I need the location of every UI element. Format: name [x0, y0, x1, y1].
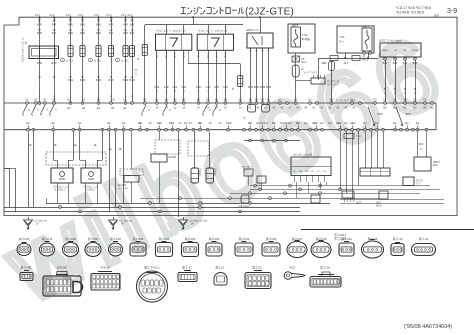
- svg-text:2J 2: 2J 2: [107, 13, 112, 17]
- svg-text:K2: K2: [383, 98, 387, 102]
- svg-text:2J 2: 2J 2: [94, 13, 99, 17]
- svg-text:E2: E2: [363, 121, 367, 125]
- svg-text:水②C06: 水②C06: [19, 237, 30, 241]
- svg-text:⑤J/C: ⑤J/C: [356, 202, 362, 205]
- svg-text:B-R: B-R: [109, 23, 114, 27]
- svg-text:K2: K2: [255, 98, 259, 102]
- svg-text:⑥EFIﾒｲﾝﾘﾚｰ: ⑥EFIﾒｲﾝﾘﾚｰ: [246, 28, 261, 32]
- svg-text:B: B: [156, 55, 158, 59]
- svg-text:E2: E2: [344, 121, 348, 125]
- svg-text:G-R: G-R: [214, 85, 219, 89]
- svg-text:G-R: G-R: [164, 85, 169, 89]
- svg-text:黒②C05: 黒②C05: [266, 237, 277, 241]
- svg-text:B-W: B-W: [248, 85, 254, 89]
- svg-text:2J 2: 2J 2: [50, 13, 55, 17]
- svg-text:B: B: [414, 87, 416, 91]
- svg-text:G-R: G-R: [155, 85, 160, 89]
- svg-text:E2: E2: [226, 121, 230, 125]
- svg-text:K2: K2: [373, 98, 377, 102]
- svg-text:K2: K2: [350, 98, 354, 102]
- svg-text:④ｱｲﾄﾞﾙｽﾋﾟｰﾄﾞｺﾝﾄﾛｰﾙﾊﾞﾙﾌﾞ: ④ｱｲﾄﾞﾙｽﾋﾟｰﾄﾞｺﾝﾄﾛｰﾙﾊﾞﾙﾌﾞ: [157, 29, 187, 33]
- svg-text:B-W: B-W: [260, 85, 266, 89]
- svg-text:G-R: G-R: [173, 85, 178, 89]
- svg-text:B: B: [404, 87, 406, 91]
- svg-text:K2: K2: [111, 98, 115, 102]
- svg-text:IGSW: IGSW: [412, 50, 419, 52]
- svg-text:MREL: MREL: [382, 50, 389, 52]
- svg-text:黒②-4L: 黒②-4L: [419, 237, 429, 241]
- svg-text:7.5A: 7.5A: [356, 135, 361, 138]
- svg-text:K2: K2: [393, 98, 397, 102]
- svg-text:E2: E2: [416, 121, 420, 125]
- svg-text:B-R: B-R: [80, 31, 85, 35]
- svg-text:黒②C05: 黒②C05: [209, 237, 220, 241]
- svg-text:A1: A1: [272, 106, 276, 110]
- svg-text:2J 2: 2J 2: [66, 13, 71, 17]
- svg-text:B-8: B-8: [434, 14, 439, 18]
- svg-text:黒②C05: 黒②C05: [133, 237, 144, 241]
- svg-text:A1: A1: [336, 106, 340, 110]
- svg-text:⑧ﾀﾞｲｱｸﾞﾉｰｼｽｺﾈｸﾀ: ⑧ﾀﾞｲｱｸﾞﾉｰｼｽｺﾈｸﾀ: [293, 153, 313, 157]
- svg-text:E2: E2: [138, 121, 142, 125]
- svg-text:E2: E2: [78, 121, 82, 125]
- svg-text:K2: K2: [52, 98, 56, 102]
- svg-text:E1: E1: [111, 106, 115, 110]
- svg-text:B-W: B-W: [51, 61, 57, 65]
- svg-text:B-R: B-R: [123, 31, 128, 35]
- svg-text:B: B: [262, 49, 264, 53]
- svg-text:1K: 1K: [38, 17, 41, 21]
- svg-text:B-R: B-R: [393, 61, 398, 65]
- svg-text:7.5A: 7.5A: [339, 35, 345, 39]
- svg-text:K2: K2: [143, 98, 147, 102]
- svg-text:G-R: G-R: [206, 85, 211, 89]
- svg-text:B2: B2: [393, 106, 397, 110]
- svg-text:B: B: [384, 87, 386, 91]
- svg-text:K2: K2: [206, 98, 210, 102]
- svg-text:A1: A1: [328, 106, 332, 110]
- svg-text:B-R: B-R: [37, 23, 42, 27]
- svg-text:B-W: B-W: [129, 78, 135, 82]
- svg-text:E2: E2: [314, 121, 318, 125]
- svg-text:黒②C06: 黒②C06: [159, 237, 170, 241]
- svg-text:K2: K2: [215, 98, 219, 102]
- svg-text:1E: 1E: [28, 143, 31, 147]
- svg-text:E2: E2: [171, 121, 175, 125]
- svg-text:A1: A1: [280, 106, 284, 110]
- svg-text:黒②C024: 黒②C024: [334, 233, 346, 237]
- svg-text:K2: K2: [68, 98, 72, 102]
- svg-text:*EJ 94.8- *EJ 95.8-: *EJ 94.8- *EJ 95.8-: [396, 11, 425, 15]
- svg-text:黒②-12: 黒②-12: [182, 266, 192, 270]
- svg-text:K2: K2: [182, 98, 186, 102]
- svg-text:E2: E2: [375, 121, 379, 125]
- svg-text:3-9: 3-9: [447, 8, 457, 15]
- svg-text:B: B: [216, 55, 218, 59]
- svg-text:黒②C03: 黒②C03: [239, 237, 250, 241]
- svg-text:E2: E2: [284, 121, 288, 125]
- svg-text:黒②-24: 黒②-24: [368, 237, 378, 241]
- svg-text:B2: B2: [403, 106, 407, 110]
- svg-text:B-R: B-R: [96, 23, 101, 27]
- svg-text:ｾﾝｻ NO.1: ｾﾝｻ NO.1: [55, 188, 66, 192]
- svg-text:2J 2: 2J 2: [121, 13, 126, 17]
- svg-text:⑥J/C NO.4: ⑥J/C NO.4: [241, 166, 253, 169]
- svg-text:E2: E2: [296, 121, 300, 125]
- svg-text:ｱﾝﾌﾟ: ｱﾝﾌﾟ: [416, 181, 421, 185]
- svg-text:SPD: SPD: [377, 112, 382, 116]
- svg-text:A1: A1: [296, 106, 300, 110]
- svg-text:7.5A: 7.5A: [302, 33, 308, 37]
- svg-text:B: B: [165, 55, 167, 59]
- svg-text:A1: A1: [344, 106, 348, 110]
- svg-text:⑤TCC ｽﾃｱﾘﾝｸﾞｺﾈｸﾀ: ⑤TCC ｽﾃｱﾘﾝｸﾞｺﾈｸﾀ: [379, 39, 402, 43]
- svg-text:FL相当: FL相当: [302, 37, 310, 41]
- svg-text:K2: K2: [82, 98, 86, 102]
- svg-text:SP2: SP2: [419, 142, 424, 146]
- svg-text:1K: 1K: [130, 17, 133, 21]
- svg-text:B-R: B-R: [130, 31, 135, 35]
- svg-text:B2: B2: [430, 106, 434, 110]
- svg-text:1K: 1K: [109, 17, 112, 21]
- svg-text:SPD: SPD: [405, 112, 410, 116]
- svg-text:K2: K2: [294, 98, 298, 102]
- svg-text:④ｱｲﾄﾞﾙｽﾋﾟｰﾄﾞｺﾝﾄﾛｰﾙﾊﾞﾙﾌﾞ: ④ｱｲﾄﾞﾙｽﾋﾟｰﾄﾞｺﾝﾄﾛｰﾙﾊﾞﾙﾌﾞ: [198, 29, 228, 33]
- svg-text:A1: A1: [312, 106, 316, 110]
- svg-text:A1: A1: [288, 106, 292, 110]
- svg-text:黒②-26: 黒②-26: [320, 266, 330, 270]
- svg-text:黒②C2: 黒②C2: [252, 266, 262, 270]
- svg-text:W: W: [318, 171, 320, 173]
- svg-text:E2: E2: [328, 121, 332, 125]
- svg-text:K2: K2: [34, 98, 38, 102]
- svg-text:E2: E2: [26, 121, 30, 125]
- svg-text:E2: E2: [405, 121, 409, 125]
- svg-text:E2: E2: [320, 121, 324, 125]
- svg-text:B-W: B-W: [123, 78, 129, 82]
- svg-text:K2: K2: [25, 98, 29, 102]
- svg-text:1E: 1E: [53, 143, 56, 147]
- svg-text:④②-26: ④②-26: [100, 266, 110, 270]
- svg-text:端①②A-IC1: 端①②A-IC1: [144, 266, 160, 270]
- svg-text:B: B: [207, 55, 209, 59]
- svg-text:E2: E2: [52, 121, 56, 125]
- svg-text:B-W: B-W: [96, 78, 102, 82]
- svg-text:A1: A1: [352, 106, 356, 110]
- svg-text:K2: K2: [423, 98, 427, 102]
- svg-text:黒②C07: 黒②C07: [292, 237, 303, 241]
- svg-text:ｲｸﾞﾅｲﾀ: ｲｸﾞﾅｲﾀ: [121, 59, 129, 63]
- svg-text:1E: 1E: [93, 143, 96, 147]
- svg-text:A1: A1: [248, 106, 252, 110]
- svg-text:A1: A1: [304, 106, 308, 110]
- svg-text:B-R: B-R: [37, 31, 42, 35]
- svg-text:A1: A1: [320, 106, 324, 110]
- svg-text:C113 ｻｰｷｯﾄｵｰﾌﾟﾆﾝｸﾞﾘﾚｰ: C113 ｻｰｷｯﾄｵｰﾌﾟﾆﾝｸﾞﾘﾚｰ: [21, 36, 25, 62]
- svg-text:ｲｸﾞﾅｲﾀ: ｲｸﾞﾅｲﾀ: [66, 59, 74, 63]
- svg-text:E2: E2: [198, 121, 202, 125]
- svg-text:B: B: [225, 55, 227, 59]
- svg-text:2J 2: 2J 2: [78, 13, 83, 17]
- svg-text:E1: E1: [68, 106, 72, 110]
- svg-text:ALT: ALT: [344, 61, 349, 65]
- svg-text:K2: K2: [43, 98, 47, 102]
- svg-text:B-R: B-R: [403, 61, 408, 65]
- svg-text:E2: E2: [304, 121, 308, 125]
- svg-text:B: B: [268, 49, 270, 53]
- svg-text:B-R: B-R: [52, 31, 57, 35]
- svg-text:青②C14: 青②C14: [42, 237, 53, 241]
- svg-text:NO.6: NO.6: [376, 206, 382, 208]
- svg-text:B: B: [250, 49, 252, 53]
- svg-text:B: B: [198, 55, 200, 59]
- svg-text:黒②C10: 黒②C10: [110, 237, 121, 241]
- svg-text:⑦: ⑦: [243, 116, 246, 120]
- svg-text:ｾﾝｻ NO.1: ｾﾝｻ NO.1: [85, 188, 96, 192]
- svg-text:E2: E2: [288, 121, 292, 125]
- svg-text:E2: E2: [338, 121, 342, 125]
- svg-text:K2: K2: [267, 98, 271, 102]
- svg-text:B-R: B-R: [96, 31, 101, 35]
- svg-text:⑥: ⑥: [232, 87, 235, 91]
- svg-text:ｴﾌｨｰ: ｴﾌｨｰ: [339, 40, 345, 43]
- svg-text:1E: 1E: [73, 143, 76, 147]
- svg-text:ECU: ECU: [433, 164, 438, 167]
- svg-text:B-R: B-R: [109, 31, 114, 35]
- svg-text:B-W: B-W: [37, 61, 43, 65]
- svg-text:K2: K2: [239, 98, 243, 102]
- svg-text:1K: 1K: [124, 17, 127, 21]
- svg-text:G-R: G-R: [196, 85, 201, 89]
- svg-text:黒②-6右: 黒②-6右: [21, 266, 32, 270]
- svg-text:K2: K2: [249, 98, 253, 102]
- svg-text:E2: E2: [122, 121, 126, 125]
- svg-text:B-R: B-R: [123, 23, 128, 27]
- svg-text:K2: K2: [308, 98, 312, 102]
- svg-text:('95/08 4A6734604): ('95/08 4A6734604): [404, 324, 452, 330]
- svg-text:2J 2: 2J 2: [128, 13, 133, 17]
- svg-text:⑥: ⑥: [25, 41, 28, 45]
- svg-text:K2: K2: [173, 98, 177, 102]
- svg-text:E2: E2: [272, 121, 276, 125]
- svg-text:黒②C05: 黒②C05: [185, 237, 196, 241]
- svg-text:②C2: ②C2: [289, 266, 296, 270]
- svg-text:K2: K2: [413, 98, 417, 102]
- svg-text:B-R: B-R: [52, 23, 57, 27]
- svg-text:B-W: B-W: [68, 78, 74, 82]
- svg-text:E2: E2: [350, 121, 354, 125]
- svg-text:黒②-16: 黒②-16: [393, 237, 403, 241]
- svg-text:黒②C05: 黒②C05: [65, 237, 76, 241]
- svg-text:E2: E2: [107, 121, 111, 125]
- svg-text:1K: 1K: [81, 17, 84, 21]
- svg-text:K2: K2: [197, 98, 201, 102]
- svg-text:1K: 1K: [97, 17, 100, 21]
- svg-text:③: ③: [137, 57, 140, 61]
- svg-text:1E: 1E: [118, 147, 121, 151]
- svg-text:ｲｸﾞﾅｲﾀ: ｲｸﾞﾅｲﾀ: [94, 59, 102, 63]
- svg-text:B-R: B-R: [68, 23, 73, 27]
- svg-text:K2: K2: [224, 98, 228, 102]
- svg-text:K2: K2: [278, 98, 282, 102]
- svg-text:E2: E2: [393, 121, 397, 125]
- svg-text:*CD-17 94.8 *5J-7 95.8: *CD-17 94.8 *5J-7 95.8: [396, 6, 431, 10]
- svg-text:E1: E1: [123, 106, 127, 110]
- svg-text:G-R: G-R: [223, 85, 228, 89]
- svg-text:ﾋｭｰｽﾞﾌﾞﾙﾘﾝｸ: ﾋｭｰｽﾞﾌﾞﾙﾘﾝｸ: [304, 70, 318, 74]
- svg-text:B-W: B-W: [80, 78, 86, 82]
- svg-text:E1: E1: [97, 106, 101, 110]
- svg-text:黒②C16: 黒②C16: [316, 237, 327, 241]
- svg-text:1K: 1K: [69, 17, 72, 21]
- svg-text:A1: A1: [264, 106, 268, 110]
- svg-text:B-W: B-W: [254, 85, 260, 89]
- svg-text:K2: K2: [403, 98, 407, 102]
- svg-text:B-R: B-R: [80, 23, 85, 27]
- svg-text:E2: E2: [260, 121, 264, 125]
- svg-text:1K: 1K: [52, 17, 55, 21]
- svg-text:B2: B2: [383, 106, 387, 110]
- svg-text:A1: A1: [256, 106, 260, 110]
- svg-text:B-R: B-R: [68, 31, 73, 35]
- svg-text:黒②C1: 黒②C1: [215, 266, 225, 270]
- svg-text:⑥C009: ⑥C009: [168, 156, 177, 159]
- svg-text:ﾚｼﾞｽﾀ: ﾚｼﾞｽﾀ: [134, 68, 138, 75]
- svg-text:NO.1: NO.1: [301, 61, 307, 64]
- svg-text:B: B: [183, 55, 185, 59]
- svg-text:⑥J/C: ⑥J/C: [376, 202, 382, 205]
- svg-text:HEAD: HEAD: [362, 59, 369, 62]
- svg-text:1E: 1E: [108, 147, 111, 151]
- svg-text:B-R: B-R: [383, 61, 388, 65]
- svg-text:E2: E2: [157, 121, 161, 125]
- svg-text:B-W: B-W: [108, 78, 114, 82]
- svg-text:2J 2: 2J 2: [35, 13, 40, 17]
- svg-text:BATT: BATT: [292, 23, 299, 27]
- svg-text:灰②C07: 灰②C07: [88, 237, 99, 241]
- svg-text:黒②C028: 黒②C028: [334, 237, 346, 241]
- svg-text:(ｲｸﾞﾆｯｼｮﾝ): (ｲｸﾞﾆｯｼｮﾝ): [327, 82, 338, 86]
- svg-text:B: B: [394, 87, 396, 91]
- svg-text:E2: E2: [248, 121, 252, 125]
- svg-text:B2: B2: [413, 106, 417, 110]
- svg-text:M②C40: M②C40: [57, 266, 67, 270]
- svg-text:E2: E2: [184, 121, 188, 125]
- svg-text:K2: K2: [97, 98, 101, 102]
- svg-text:AM2: AM2: [321, 61, 327, 65]
- svg-text:K2: K2: [261, 98, 265, 102]
- svg-text:ﾉｲｽﾞﾌｨﾙﾀ: ﾉｲｽﾞﾌｨﾙﾀ: [118, 186, 128, 190]
- svg-text:B2: B2: [423, 106, 427, 110]
- svg-text:G-R: G-R: [181, 85, 186, 89]
- svg-text:E1: E1: [82, 106, 86, 110]
- svg-text:B: B: [256, 49, 258, 53]
- svg-text:K2: K2: [155, 98, 159, 102]
- svg-text:B: B: [174, 55, 176, 59]
- svg-text:K2: K2: [165, 98, 169, 102]
- svg-text:B-R: B-R: [130, 23, 135, 27]
- svg-text:BATT: BATT: [363, 26, 369, 29]
- svg-text:K2: K2: [330, 98, 334, 102]
- svg-text:(2JZ-GTE): (2JZ-GTE): [245, 7, 294, 18]
- svg-text:B-W: B-W: [266, 85, 272, 89]
- svg-text:B-R: B-R: [413, 61, 418, 65]
- svg-text:K2: K2: [123, 98, 127, 102]
- svg-text:E2: E2: [264, 121, 268, 125]
